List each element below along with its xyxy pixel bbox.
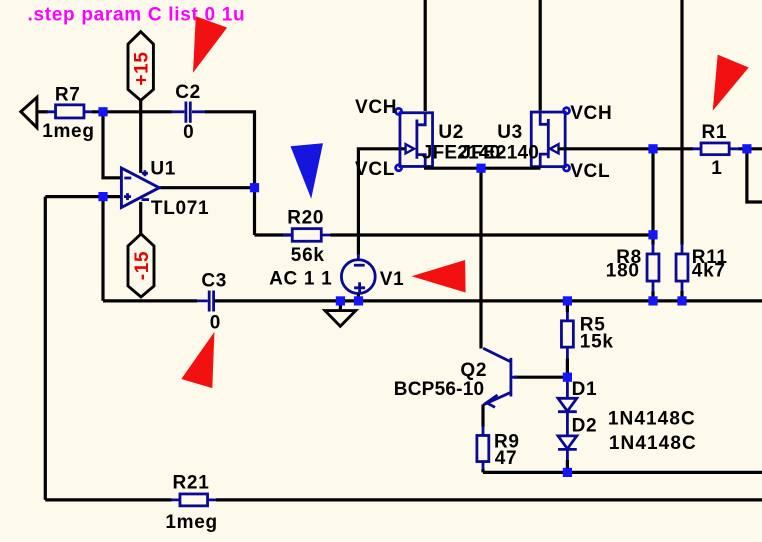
- annotation arrow red below C3: [181, 332, 214, 388]
- svg-text:1N4148C: 1N4148C: [608, 409, 696, 430]
- wire C2 right to R20 left (corner): [205, 110, 292, 235]
- wire junction down to C3: [101, 197, 104, 301]
- node R8 bottom: [648, 296, 657, 305]
- transistor Q2: [394, 348, 517, 407]
- svg-text:V1: V1: [380, 269, 405, 290]
- resistor R1: [692, 147, 739, 150]
- svg-text:C3: C3: [201, 271, 227, 292]
- wire opamp V- to -15 flag: [139, 202, 142, 235]
- svg-text:1meg: 1meg: [42, 121, 94, 142]
- wire R5 leads: [566, 301, 569, 380]
- svg-text:R20: R20: [287, 208, 324, 229]
- svg-text:D2: D2: [572, 415, 598, 436]
- wire bottom D2/R9: [483, 471, 762, 474]
- wire R8 link vertical: [651, 149, 654, 301]
- flag -15: [128, 234, 154, 297]
- wire R11 bottom: [681, 282, 684, 292]
- annotation arrow red top-left: [193, 16, 227, 73]
- voltage source V1: [269, 149, 406, 301]
- node V1 bottom: [354, 296, 363, 305]
- node R20/R8: [648, 230, 657, 239]
- wire R21 bottom: [45, 498, 762, 501]
- wire +15 stem to opamp V+: [139, 99, 142, 173]
- svg-text:U2: U2: [438, 122, 464, 143]
- svg-text:U3: U3: [497, 122, 523, 143]
- annotation arrow blue mid: [291, 143, 324, 198]
- resistor R21: [171, 498, 217, 501]
- diode D2: [558, 415, 597, 449]
- wire U3 drain from top: [539, 0, 542, 111]
- node R5 top: [563, 296, 572, 305]
- annotation arrow red left-pointing at V1: [412, 260, 466, 293]
- resistor R20: [283, 234, 331, 237]
- resistor R8: [647, 254, 659, 281]
- wire y=301 main horizontal: [103, 299, 762, 302]
- resistor R7: [47, 110, 94, 113]
- wire non-inverting input: [45, 195, 122, 198]
- ground: [325, 301, 356, 326]
- wire R9 bottom: [481, 469, 484, 472]
- svg-text:D1: D1: [572, 379, 598, 400]
- transistor U2 (JFE2140): [396, 108, 501, 170]
- svg-text:AC 1 1: AC 1 1: [269, 268, 332, 289]
- svg-text:1N4148C: 1N4148C: [609, 433, 697, 454]
- node D2 bottom: [563, 468, 572, 477]
- input port symbol: [21, 97, 37, 127]
- svg-text:0: 0: [183, 122, 194, 143]
- svg-text:C2: C2: [175, 82, 201, 103]
- wire inverting input: [103, 110, 122, 178]
- node R1 right: [742, 144, 751, 153]
- resistor R5: [566, 311, 569, 360]
- svg-text:15k: 15k: [580, 332, 614, 353]
- wire R1 right corner down: [747, 149, 762, 202]
- wire U2/U3 sources: [424, 167, 541, 170]
- wire port to R7: [37, 110, 48, 113]
- wire sources down to Q2 collector: [479, 168, 482, 348]
- diode D1: [558, 379, 597, 412]
- flag +15: [128, 32, 153, 101]
- node R7/C2/inv junction: [98, 107, 107, 116]
- wire R20 right to R8 node: [331, 233, 654, 236]
- transistor U3 (JFE2140): [461, 108, 570, 171]
- node non-inverting input: [98, 192, 107, 201]
- wire left vertical to R21: [44, 197, 47, 500]
- wire Q2 base: [514, 376, 567, 379]
- node R11 bottom: [677, 296, 686, 305]
- svg-text:VCL: VCL: [570, 161, 610, 182]
- svg-text:+15: +15: [132, 51, 153, 85]
- svg-text:BCP56-10: BCP56-10: [394, 379, 485, 400]
- svg-text:R1: R1: [702, 122, 728, 143]
- svg-text:R21: R21: [173, 473, 210, 494]
- node opamp output: [250, 183, 259, 192]
- svg-text:VCH: VCH: [570, 103, 612, 124]
- svg-text:TL071: TL071: [151, 198, 209, 219]
- op-amp U1: [121, 159, 209, 220]
- svg-text:.step param C list 0 1u: .step param C list 0 1u: [28, 4, 246, 25]
- node Q2 base / D1: [563, 373, 572, 382]
- capacitor C3: [196, 271, 227, 334]
- svg-text:0: 0: [210, 312, 221, 333]
- wire diodes vertical: [566, 380, 569, 462]
- svg-text:1meg: 1meg: [165, 512, 217, 533]
- resistor R11: [676, 254, 688, 281]
- svg-text:180: 180: [606, 261, 640, 282]
- resistor R9: [482, 426, 485, 470]
- wire Q2 emitter to R9: [481, 405, 484, 428]
- svg-text:VCH: VCH: [355, 97, 397, 118]
- wire R11 from top: [680, 0, 683, 245]
- capacitor C2: [171, 82, 206, 143]
- svg-text:Q2: Q2: [460, 360, 487, 381]
- node source junction: [476, 164, 485, 173]
- svg-text:47: 47: [495, 448, 518, 469]
- svg-text:-15: -15: [132, 251, 153, 281]
- svg-text:1: 1: [711, 158, 722, 179]
- wire U2 drain from top: [424, 0, 427, 111]
- wire R7 to C2: [92, 110, 172, 113]
- svg-text:R7: R7: [55, 84, 81, 105]
- svg-text:U1: U1: [150, 159, 176, 180]
- svg-text:VCL: VCL: [355, 159, 395, 180]
- annotation arrow red top-right: [713, 55, 749, 111]
- wire opamp output: [159, 186, 256, 189]
- svg-text:JFE2140: JFE2140: [461, 143, 540, 164]
- node ground stem: [336, 296, 345, 305]
- wire U3 gate to R1: [559, 147, 762, 150]
- svg-text:56k: 56k: [291, 245, 325, 266]
- node R8 top / gate wire: [648, 144, 657, 153]
- svg-text:4k7: 4k7: [692, 261, 726, 282]
